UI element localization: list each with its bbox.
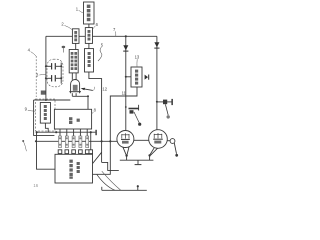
terminal lead M2 right bbox=[170, 139, 175, 144]
resistor chain R1-R6 pins from B7 bbox=[60, 129, 87, 136]
MOSFET M1 bbox=[117, 131, 134, 148]
wire arc to bottom line bbox=[97, 174, 115, 190]
wire mid vertical to B8 bbox=[126, 76, 131, 78]
node dot bbox=[35, 140, 37, 142]
wire B5 down and across to right vertical drop bbox=[89, 72, 102, 162]
wire right vertical from rail corner to M2 bbox=[156, 36, 158, 130]
wire bus stub to terminal bbox=[91, 131, 96, 133]
wire B4 to sensor dome left lead bbox=[71, 73, 73, 80]
wire left short line bbox=[34, 100, 55, 135]
label 12 bbox=[102, 86, 107, 91]
svg-text:7: 7 bbox=[113, 27, 116, 32]
svg-text:2: 2 bbox=[61, 22, 64, 27]
capacitor branch upper bbox=[46, 65, 51, 67]
text blobs B6 bbox=[44, 105, 47, 120]
wire bottom line bbox=[102, 189, 147, 191]
wire dome legs bbox=[71, 93, 73, 96]
text blobs B8 bbox=[135, 70, 138, 85]
box B6 bbox=[40, 103, 50, 124]
wire branch from mid vertical down right side bbox=[93, 96, 126, 174]
node dots on gate line bbox=[101, 140, 103, 142]
label 7 bbox=[113, 27, 116, 36]
connector squares on B9 top bbox=[58, 150, 92, 154]
text blobs B3 bbox=[88, 30, 91, 41]
MOSFET M2 bbox=[149, 130, 168, 149]
wire left vertical from rail corner bbox=[45, 36, 47, 100]
diode D2 on right vertical bbox=[154, 42, 159, 48]
component small dark block under crystal bbox=[41, 91, 46, 95]
capacitor branch lower bbox=[46, 77, 51, 79]
label 9 bbox=[25, 107, 36, 112]
thermostat switch S1 bbox=[129, 108, 140, 110]
wire gate link between M1 M2 bbox=[134, 139, 149, 141]
wire B2 to B4 bbox=[75, 43, 77, 49]
wire arc 2 to bottom line bbox=[102, 171, 121, 190]
box B4 bbox=[69, 50, 78, 73]
label 16 faint bbox=[33, 183, 38, 188]
wire bus under B7 bbox=[37, 131, 91, 133]
box B3 bbox=[85, 28, 92, 44]
thermostat switch S2 on right branch bbox=[157, 101, 172, 103]
box B9 bottom module bbox=[55, 154, 93, 183]
arrow pointing at dome bbox=[82, 89, 93, 91]
wire B6 bottom route bbox=[45, 123, 48, 132]
wire left down to B9 stub bbox=[37, 132, 56, 169]
text blobs B5 bbox=[88, 52, 91, 67]
wire dashed left guide bbox=[35, 56, 37, 97]
crystal dashed enclosure bbox=[47, 59, 63, 87]
wire crystal right vertical bbox=[60, 63, 62, 84]
wire main top rail bbox=[46, 35, 157, 37]
wire M1 source legs bbox=[123, 147, 127, 155]
node junction rail/mid vertical bbox=[125, 35, 127, 37]
svg-text:1: 1 bbox=[76, 7, 79, 12]
resistor bodies row bbox=[59, 136, 89, 148]
terminal bar at bus end bbox=[95, 130, 96, 135]
wire dome to B7 bbox=[72, 96, 88, 109]
node dots crystal bbox=[45, 65, 47, 67]
svg-text:5: 5 bbox=[101, 42, 104, 47]
svg-text:6: 6 bbox=[96, 22, 99, 27]
svg-text:12: 12 bbox=[102, 86, 107, 91]
resistor body shading bbox=[59, 137, 88, 145]
wire from B8 bottom loop to mid vertical bbox=[126, 87, 137, 96]
wire mid rail y100 bbox=[34, 99, 71, 101]
label 5 bbox=[98, 42, 104, 61]
dashed enclosure around B6 bbox=[36, 99, 56, 131]
diode D1 on mid vertical bbox=[123, 45, 128, 51]
text blobs B2 bbox=[74, 31, 77, 41]
wire source bus bbox=[120, 159, 154, 161]
svg-text:4: 4 bbox=[28, 47, 31, 52]
box B2 bbox=[72, 29, 79, 44]
wire B3 to B5 bbox=[88, 43, 90, 48]
node dot on mid vertical bbox=[125, 106, 127, 108]
text blobs B1 bbox=[87, 5, 91, 22]
box B8 driver bbox=[131, 67, 142, 87]
label 1 bbox=[76, 7, 84, 13]
label 4 bbox=[28, 47, 37, 56]
svg-text:9: 9 bbox=[25, 107, 28, 112]
node dots on bus bbox=[36, 131, 38, 133]
svg-text:3: 3 bbox=[36, 72, 39, 77]
label 13 bbox=[135, 55, 140, 67]
node dot on right vertical bbox=[156, 101, 158, 103]
text blobs B9 bbox=[69, 160, 79, 179]
svg-text:16: 16 bbox=[33, 183, 38, 188]
wire staircase right of B9 bbox=[102, 162, 119, 170]
label 11 bbox=[122, 91, 127, 96]
svg-text:13: 13 bbox=[135, 55, 140, 60]
text blobs B4 two columns bbox=[71, 52, 77, 70]
wire right column to connector bbox=[90, 132, 92, 150]
wire mid vertical to M1 bbox=[125, 36, 127, 130]
wire B4 to sensor dome right lead bbox=[75, 73, 77, 80]
label 8 bbox=[92, 107, 97, 114]
label 2 bbox=[61, 22, 72, 30]
box B7 main IC bbox=[54, 109, 91, 129]
dome base bar bbox=[69, 91, 81, 93]
label 10 curl bottom left bbox=[22, 140, 26, 151]
wire B1 to B3 bbox=[88, 24, 90, 28]
label 6 bbox=[93, 22, 99, 29]
wire gate control line to M1 bbox=[36, 140, 117, 142]
transistor dome Q1 bbox=[71, 80, 80, 94]
node dot bbox=[87, 95, 89, 97]
dome internals bbox=[73, 85, 78, 91]
diode small right of B8 bbox=[145, 75, 150, 80]
svg-text:11: 11 bbox=[122, 91, 127, 96]
node dot bbox=[45, 99, 47, 101]
wire diagonal from B9 to vertical bbox=[93, 152, 102, 163]
node dot on mid vertical at B8 wire bbox=[125, 76, 127, 78]
label marker left of B4 bbox=[62, 46, 66, 53]
svg-text:8: 8 bbox=[94, 107, 97, 112]
label 3 bbox=[36, 72, 46, 77]
box B5 bbox=[85, 49, 94, 72]
wire M2 source legs bbox=[150, 148, 154, 155]
ground bbox=[137, 160, 139, 164]
text blobs B7 bbox=[69, 117, 80, 124]
box B1 top module bbox=[84, 2, 95, 24]
